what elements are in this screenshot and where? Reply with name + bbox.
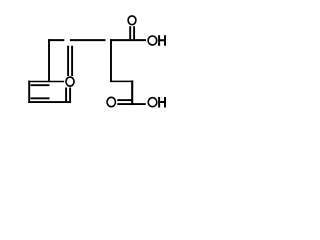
ring right double bond inner line below O (65, 88, 67, 102)
bottom COOH C=O main line and C-OH bond (117, 103, 146, 105)
ring right double bond outer line below O (69, 88, 71, 104)
wire middle horizontal bond (110, 80, 133, 82)
wire chain horizontal segment b (70, 39, 106, 41)
ring top edge bond (28, 80, 64, 82)
top COOH carbonyl O label (128, 16, 136, 25)
bottom COOH OH label O glyph (148, 98, 157, 107)
double bond above ring O right line (71, 46, 73, 76)
top COOH C=O double bond right line (133, 26, 135, 39)
top COOH OH label O glyph (148, 36, 157, 45)
top COOH OH label H glyph (159, 35, 165, 46)
ring bottom double bond inner line (31, 97, 50, 99)
wire branch vertical bond (110, 39, 112, 82)
bottom COOH carbonyl O label (107, 97, 115, 106)
top COOH C=O double bond left line (129, 26, 131, 39)
wire vertical bond ring to chain (48, 39, 50, 82)
ring oxygen O label (66, 77, 74, 86)
double bond above ring O left line (67, 46, 69, 76)
wire chain horizontal segment c through top COOH carbon to OH (110, 39, 146, 41)
wire chain horizontal segment a (48, 39, 64, 41)
ring bottom edge bond (28, 101, 71, 103)
ring left edge bond (28, 81, 30, 103)
bottom COOH OH label H glyph (159, 97, 165, 108)
wire vertical bond down to lower COOH carbon (131, 80, 133, 105)
ring top double bond inner line (31, 84, 50, 86)
bottom COOH C=O double bond inner line (117, 99, 133, 101)
